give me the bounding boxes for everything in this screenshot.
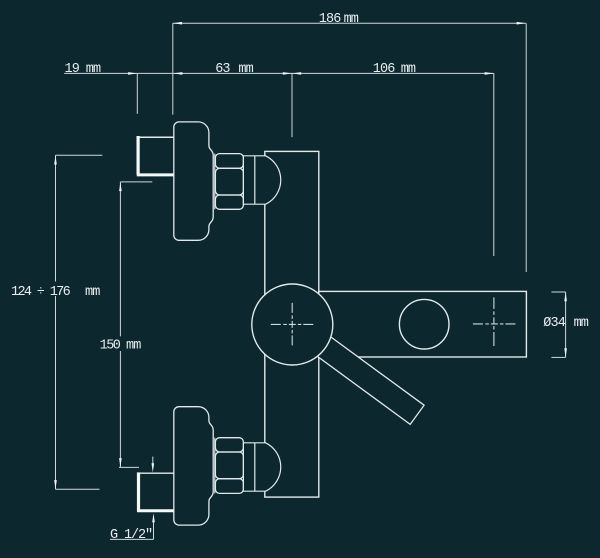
- dim 124-176 vertical upper: [55, 155, 57, 281]
- bottom stub left edge (thick): [137, 472, 140, 511]
- svg-text:mm: mm: [126, 338, 141, 353]
- dim 124-176 top ext: [56, 154, 103, 156]
- svg-text:106: 106: [373, 62, 395, 77]
- arrow 19 right / 63 left: [173, 72, 182, 75]
- svg-text:mm: mm: [86, 62, 101, 77]
- svg-text:124 ÷ 176: 124 ÷ 176: [11, 285, 71, 300]
- nut left edge: [214, 154, 216, 210]
- arrow 63 right: [283, 72, 292, 75]
- svg-text:63: 63: [215, 62, 230, 77]
- bottom stub: [137, 472, 174, 511]
- top stub top edge: [137, 136, 174, 138]
- arrow 124-176 bottom: [54, 480, 57, 489]
- bottom stub top edge: [138, 472, 174, 474]
- cartridge circle: [252, 284, 333, 365]
- dim 150 top ext: [120, 181, 152, 183]
- hex nut band lower: [215, 195, 243, 209]
- arrow 186 right: [517, 22, 526, 25]
- dome flat face line: [254, 156, 256, 204]
- arrow 150 bottom: [119, 458, 122, 467]
- union dome: [243, 156, 280, 204]
- bottom connection group (mirror of top): [174, 407, 281, 525]
- dim 124-176 bottom ext: [56, 488, 100, 490]
- svg-text:mm: mm: [85, 285, 100, 300]
- leader arrow line at bottom stub top: [152, 457, 154, 466]
- arrow 034 bottom: [564, 348, 567, 357]
- ext line right (spout end): [525, 23, 527, 272]
- dim line 186mm: [173, 22, 526, 24]
- arrow 106 left: [292, 72, 301, 75]
- ext line 19mm left: [136, 73, 138, 113]
- G 1/2 leader underline: [110, 538, 154, 540]
- svg-text:186: 186: [319, 12, 341, 27]
- svg-text:19: 19: [65, 62, 80, 77]
- arrow 150 top: [119, 182, 122, 191]
- top stub: [137, 136, 174, 175]
- svg-text:150: 150: [100, 338, 121, 353]
- body rectangle: [265, 151, 319, 497]
- svg-text:mm: mm: [401, 62, 416, 77]
- svg-text:mm: mm: [574, 316, 589, 331]
- arrow 106 right: [485, 72, 494, 75]
- crosshair spout end: [473, 297, 516, 346]
- faucet body: [265, 151, 319, 497]
- svg-text:mm: mm: [344, 12, 359, 27]
- ext line spout center: [493, 73, 495, 256]
- arrow 124-176 top: [54, 155, 57, 164]
- dim 034 bottom ext: [551, 356, 565, 358]
- dim 150 vertical: [119, 182, 121, 337]
- arrow at bottom stub top edge: [152, 463, 155, 472]
- lever handle: [306, 329, 424, 424]
- dim 150 bottom ext: [119, 466, 139, 468]
- hex nut band upper: [215, 154, 243, 169]
- dim 034 top ext: [551, 291, 565, 293]
- ext line body center: [291, 73, 293, 137]
- svg-text:mm: mm: [238, 62, 253, 77]
- arrows: [54, 22, 567, 523]
- dim 124-176 vertical lower: [55, 296, 57, 489]
- dim 034 vertical: [565, 292, 567, 357]
- svg-text:G 1/2″: G 1/2″: [110, 528, 152, 543]
- arrow 034 top: [564, 292, 567, 301]
- svg-text:Ø34: Ø34: [543, 316, 565, 331]
- hex nut band middle: [215, 168, 243, 195]
- bottom stub bottom edge (thick): [137, 509, 174, 512]
- ext line left (wall face): [172, 23, 174, 114]
- dim line 19/63/106: [64, 72, 494, 74]
- arrow 186 left: [173, 22, 182, 25]
- top stub bottom edge (thick): [137, 173, 174, 176]
- top stub left edge (thick): [137, 136, 140, 175]
- spout rectangle: [319, 291, 527, 357]
- arrow G12 leader: [152, 513, 155, 522]
- dim 150 vertical lower: [119, 351, 121, 467]
- arrow 19 left outside: [128, 72, 137, 75]
- crosshair cartridge: [271, 303, 314, 346]
- G 1/2 leader vertical: [153, 519, 155, 539]
- aerator circle: [399, 299, 449, 349]
- top connection group: [174, 122, 281, 240]
- escutcheon (wall flange): [174, 122, 213, 240]
